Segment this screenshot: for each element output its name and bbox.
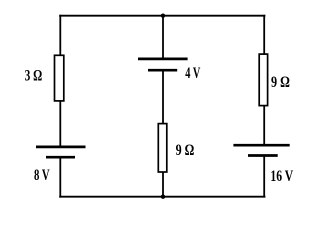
resistor 9 ohm right <box>259 54 267 106</box>
svg-text:4 V: 4 V <box>185 65 201 82</box>
wire middle upper <box>162 16 164 59</box>
wire middle lower <box>162 172 164 197</box>
wire bottom horizontal <box>59 196 265 198</box>
wire right upper <box>263 15 265 55</box>
battery 16V long plate <box>233 144 289 147</box>
node bottom junction <box>161 195 165 199</box>
battery 4V long plate <box>138 58 188 61</box>
svg-text:9 Ω: 9 Ω <box>271 74 290 91</box>
wire right middle <box>263 105 265 145</box>
wire left lower <box>59 157 61 197</box>
battery 8V short plate <box>46 156 75 159</box>
battery 8V long plate <box>36 146 86 149</box>
node top junction <box>161 14 165 18</box>
wire top horizontal <box>59 15 265 17</box>
svg-text:8 V: 8 V <box>34 167 50 184</box>
wire left middle <box>59 101 61 148</box>
resistor 3 ohm <box>55 55 64 101</box>
svg-text:16 V: 16 V <box>270 168 293 185</box>
svg-text:3 Ω: 3 Ω <box>25 67 43 84</box>
wire right lower <box>263 156 265 198</box>
battery 16V short plate <box>248 154 278 157</box>
svg-text:9 Ω: 9 Ω <box>176 142 195 159</box>
wire middle mid <box>162 70 164 124</box>
battery 4V short plate <box>148 69 177 72</box>
wire left upper <box>59 15 61 56</box>
resistor 9 ohm middle <box>158 124 167 172</box>
